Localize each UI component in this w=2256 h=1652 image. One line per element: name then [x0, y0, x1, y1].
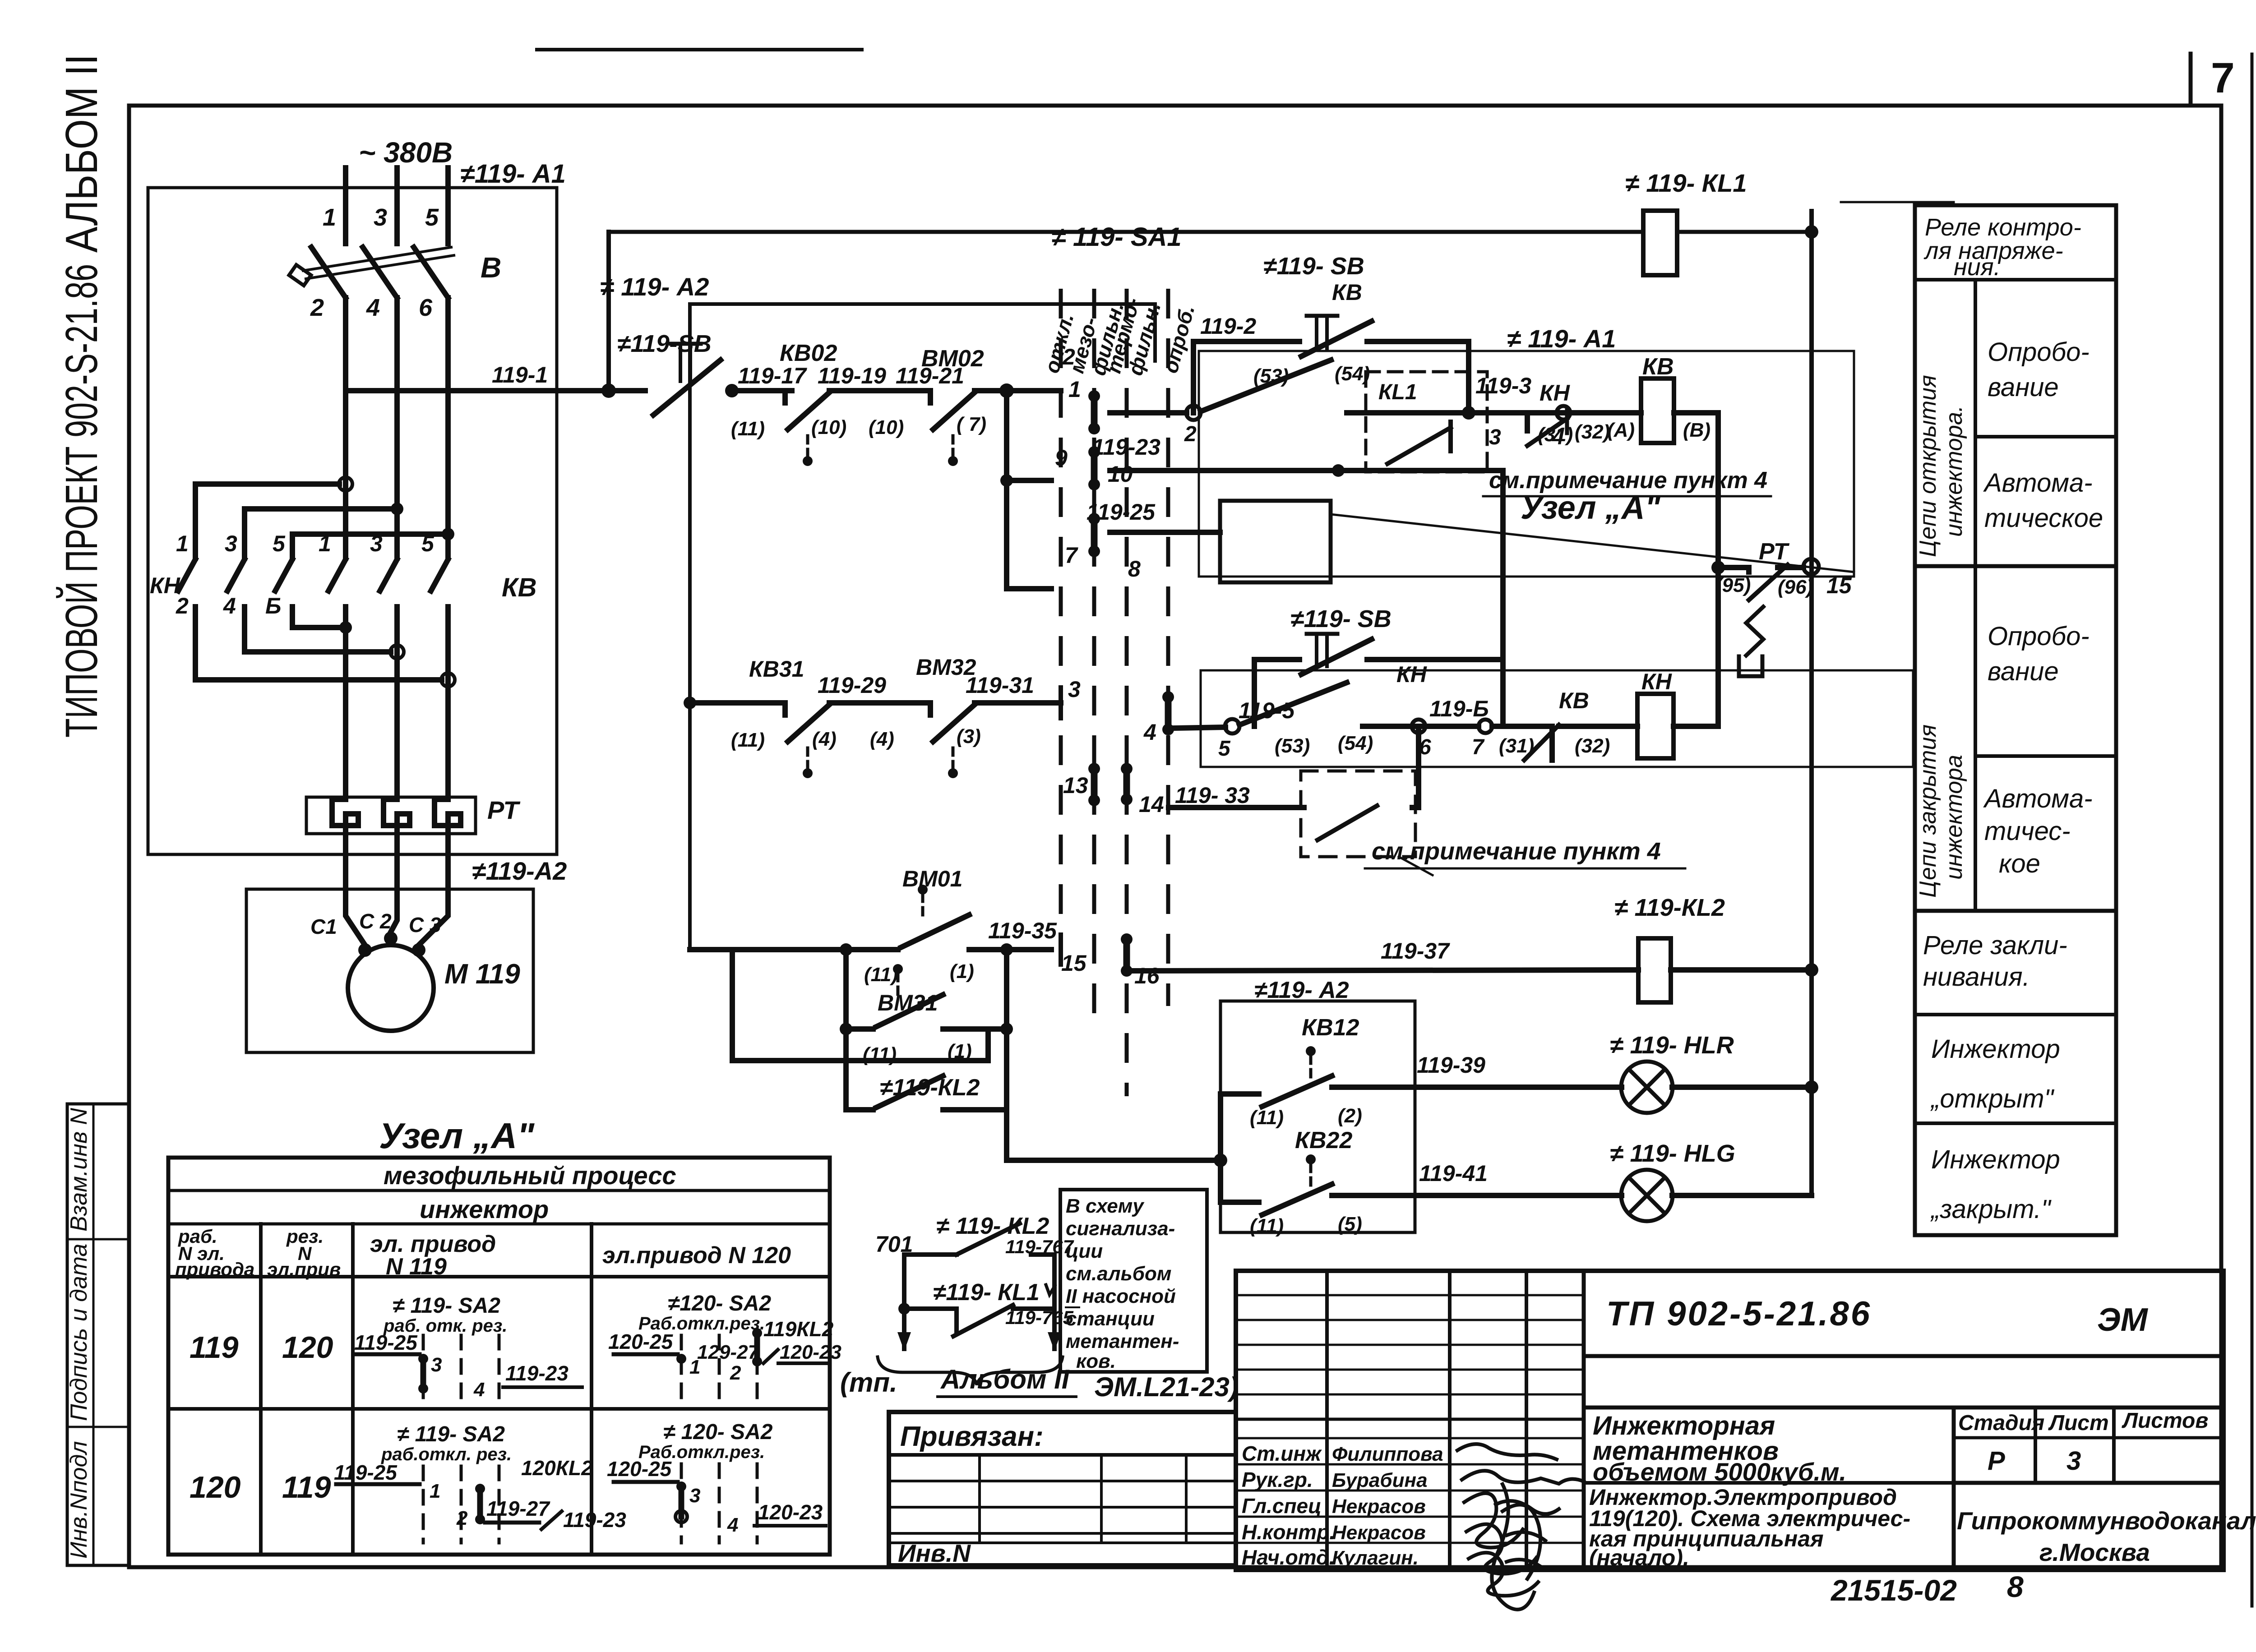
svg-text:Рук.гр.: Рук.гр. — [1242, 1468, 1313, 1491]
svg-text:(В): (В) — [1683, 419, 1710, 441]
svg-text:Инжектор: Инжектор — [1931, 1034, 2060, 1064]
cell: привод 119 / row 119 — [354, 1294, 582, 1401]
contact VM31 — [840, 964, 1013, 1035]
svg-text:8: 8 — [2007, 1570, 2024, 1603]
wire 119-41 with lamp HLG — [1332, 1161, 1812, 1195]
svg-text:119-767: 119-767 — [1005, 1236, 1074, 1257]
svg-text:120-23: 120-23 — [780, 1341, 841, 1363]
svg-text:≠ 119- SА1: ≠ 119- SА1 — [1051, 222, 1182, 252]
switch contact bridges — [1088, 390, 1174, 977]
svg-text:5: 5 — [425, 204, 439, 231]
title block — [1236, 1271, 2256, 1610]
svg-text:эл.привод N 120: эл.привод N 120 — [602, 1242, 791, 1269]
svg-text:(5): (5) — [1338, 1213, 1362, 1235]
svg-text:КВ: КВ — [1332, 280, 1362, 305]
svg-text:КВ22: КВ22 — [1295, 1127, 1352, 1154]
svg-text:120-25: 120-25 — [607, 1457, 672, 1481]
wire 119-25 to node A block — [1086, 499, 1331, 582]
svg-text:ЭМ: ЭМ — [2097, 1302, 2149, 1338]
svg-text:(11): (11) — [1250, 1107, 1284, 1129]
svg-text:(4): (4) — [870, 728, 894, 750]
svg-text:119-19: 119-19 — [818, 363, 886, 388]
svg-text:≠119-А2: ≠119-А2 — [472, 857, 567, 885]
svg-text:15: 15 — [1826, 573, 1852, 598]
svg-text:≠120- SА2: ≠120- SА2 — [668, 1292, 771, 1315]
svg-text:7: 7 — [1065, 543, 1078, 568]
svg-text:АЛЬБОМ II: АЛЬБОМ II — [56, 54, 107, 253]
svg-text:3: 3 — [2066, 1446, 2081, 1476]
svg-text:(32): (32) — [1575, 421, 1610, 443]
svg-text:С 2: С 2 — [359, 909, 392, 933]
svg-text:3: 3 — [689, 1485, 700, 1507]
svg-text:21515-02: 21515-02 — [1830, 1574, 1957, 1607]
svg-text:Реле закли-: Реле закли- — [1923, 931, 2067, 960]
svg-text:(11): (11) — [1250, 1215, 1284, 1237]
svg-text:120: 120 — [282, 1330, 333, 1365]
svg-text:Некрасов: Некрасов — [1332, 1495, 1426, 1518]
svg-text:вание: вание — [1988, 373, 2059, 402]
wire 119-5 row with KN contact — [1175, 683, 1637, 760]
svg-text:1: 1 — [430, 1480, 440, 1502]
svg-text:≠119- А1: ≠119- А1 — [460, 159, 566, 189]
svg-text:120: 120 — [190, 1470, 241, 1504]
svg-text:≠119-SВ: ≠119-SВ — [617, 330, 712, 357]
svg-text:6: 6 — [419, 294, 433, 321]
svg-text:120-25: 120-25 — [608, 1330, 674, 1353]
svg-text:120-23: 120-23 — [758, 1500, 823, 1524]
svg-text:≠ 119- КL1: ≠ 119- КL1 — [1625, 169, 1747, 197]
svg-text:Подпись и дата: Подпись и дата — [66, 1244, 92, 1421]
lamp #119-HLG — [1610, 1140, 1735, 1221]
svg-text:инжектор: инжектор — [420, 1195, 549, 1223]
svg-text:ния.: ния. — [1954, 254, 2001, 281]
svg-text:Взам.инв N: Взам.инв N — [66, 1108, 92, 1232]
svg-text:ции: ции — [1066, 1240, 1103, 1262]
svg-text:КВ31: КВ31 — [749, 656, 804, 682]
svg-text:≠ 119- SА2: ≠ 119- SА2 — [393, 1294, 500, 1318]
svg-text:≠ 119- А1: ≠ 119- А1 — [1507, 324, 1616, 353]
svg-text:119-27: 119-27 — [486, 1497, 550, 1520]
phase line L1 — [343, 168, 348, 244]
svg-text:„закрыт.": „закрыт." — [1930, 1195, 2052, 1224]
svg-text:Нач.отд.: Нач.отд. — [1242, 1546, 1335, 1569]
svg-text:(2): (2) — [1338, 1105, 1362, 1127]
svg-text:сигнализа-: сигнализа- — [1066, 1218, 1175, 1240]
node riser to top rail — [601, 383, 616, 398]
dashed column 1 (откл.) — [1059, 289, 1063, 974]
coil KV (opening) — [1575, 354, 1710, 443]
svg-text:Инв.Nподл: Инв.Nподл — [66, 1441, 92, 1559]
svg-text:мезофильный процесс: мезофильный процесс — [384, 1161, 676, 1190]
svg-text:129-27: 129-27 — [697, 1341, 760, 1363]
svg-text:(31): (31) — [1499, 735, 1534, 757]
wire 119-35 with contact VM01 — [690, 885, 1061, 964]
cell: привод 120 / row 119 — [608, 1292, 841, 1401]
svg-text:Кулагин.: Кулагин. — [1332, 1547, 1419, 1569]
svg-text:119-1: 119-1 — [492, 362, 548, 388]
svg-text:тичес-: тичес- — [1984, 817, 2071, 846]
svg-text:1: 1 — [1068, 377, 1081, 402]
svg-text:г.Москва: г.Москва — [2039, 1538, 2150, 1566]
svg-text:инжектора.: инжектора. — [1941, 406, 1967, 537]
svg-text:КВ: КВ — [1559, 688, 1589, 713]
svg-text:2: 2 — [310, 294, 324, 321]
svg-text:≠ 119- А2: ≠ 119- А2 — [600, 272, 709, 301]
signatures scribbles — [1457, 1444, 1584, 1610]
coil KN (closing) — [1637, 694, 1674, 758]
svg-text:Р: Р — [1988, 1446, 2005, 1476]
right legend table — [1915, 205, 2116, 1235]
svg-text:3: 3 — [1489, 425, 1501, 449]
svg-text:2: 2 — [456, 1507, 468, 1529]
svg-text:119: 119 — [190, 1330, 239, 1365]
svg-text:метантен-: метантен- — [1066, 1330, 1179, 1352]
contactor KV poles — [328, 559, 448, 799]
left stamp column (Инв.N подл / Подпись и дата / Взам.инв N) — [66, 1104, 129, 1565]
svg-text:2: 2 — [1184, 422, 1197, 446]
svg-text:≠119-КL2: ≠119-КL2 — [880, 1075, 980, 1101]
phase verticals above KV contacts — [343, 298, 348, 558]
svg-text:8: 8 — [1128, 556, 1141, 581]
svg-text:10: 10 — [1108, 461, 1133, 487]
wire 119-39 with lamp HLR — [1332, 1052, 1818, 1094]
svg-text:Автома-: Автома- — [1983, 468, 2093, 498]
svg-text:эл.прив: эл.прив — [267, 1259, 341, 1280]
svg-text:(3): (3) — [957, 725, 981, 748]
svg-text:5: 5 — [421, 531, 435, 556]
svg-text:КL1: КL1 — [1378, 380, 1417, 404]
svg-text:Инжектор: Инжектор — [1931, 1145, 2060, 1174]
svg-text:1: 1 — [319, 531, 331, 556]
phase line L2 — [394, 168, 400, 244]
svg-text:119: 119 — [282, 1470, 331, 1504]
alarm note box (В схему сигнализации...) — [1060, 1190, 1207, 1372]
breaker B poles — [289, 247, 454, 298]
svg-text:(95): (95) — [1715, 574, 1751, 596]
dashed column 4 (опроб.) — [1166, 289, 1170, 1006]
svg-text:≠ 119-КL2: ≠ 119-КL2 — [1614, 894, 1725, 921]
svg-text:119-35: 119-35 — [988, 918, 1057, 943]
svg-text:≠ 119- НLR: ≠ 119- НLR — [1610, 1032, 1734, 1059]
svg-text:119- 33: 119- 33 — [1175, 783, 1250, 808]
svg-text:(10): (10) — [869, 416, 904, 438]
svg-text:119-17: 119-17 — [738, 363, 807, 388]
feed wire to lamp box — [1007, 1110, 1220, 1160]
top rail to KL1 — [609, 230, 1643, 234]
note 2 (см.примечание пункт 4) — [1365, 838, 1685, 875]
svg-text:119-5: 119-5 — [1239, 698, 1295, 723]
svg-text:4: 4 — [366, 294, 380, 321]
svg-text:7: 7 — [1472, 735, 1485, 759]
svg-text:≠ 119- НLG: ≠ 119- НLG — [1610, 1140, 1735, 1167]
svg-text:14: 14 — [1139, 792, 1164, 817]
thin enclosure #119-A1 — [1199, 324, 1854, 577]
pushbutton SB bypass (opening) — [1193, 253, 1469, 413]
Привязан box — [889, 1412, 1236, 1567]
enclosure box #119-A1 — [148, 159, 566, 854]
svg-text:„открыт": „открыт" — [1930, 1084, 2055, 1113]
top-left scan marks — [537, 50, 1954, 202]
svg-text:Лист: Лист — [2048, 1411, 2109, 1435]
rotated column labels — [1040, 295, 1199, 378]
svg-text:(10): (10) — [811, 416, 846, 438]
svg-text:II насосной: II насосной — [1066, 1285, 1176, 1307]
svg-text:(53): (53) — [1275, 735, 1310, 757]
svg-text:(96): (96) — [1778, 576, 1813, 598]
svg-text:(11): (11) — [731, 418, 765, 440]
svg-text:КН: КН — [1539, 380, 1570, 406]
svg-text:Листов: Листов — [2122, 1409, 2208, 1433]
svg-text:Узел „А": Узел „А" — [379, 1116, 535, 1156]
wire 119-33 with aux KL contact (dashed) — [1169, 726, 1419, 857]
upper crossover wiring to KN — [195, 477, 454, 558]
svg-text:119-31: 119-31 — [966, 673, 1034, 698]
svg-text:≠119- SВ: ≠119- SВ — [1290, 605, 1392, 632]
svg-text:ВМ01: ВМ01 — [902, 866, 962, 891]
svg-text:2: 2 — [730, 1362, 741, 1384]
svg-text:5: 5 — [273, 531, 286, 556]
svg-text:2: 2 — [176, 593, 189, 618]
wire row KV31 / VM32 — [684, 688, 1061, 778]
svg-text:119-25: 119-25 — [354, 1331, 418, 1354]
svg-text:16: 16 — [1134, 963, 1160, 988]
relay coil KL1 — [1625, 169, 1747, 275]
motor enclosure box — [246, 889, 533, 1052]
svg-text:Опробо-: Опробо- — [1988, 337, 2090, 367]
svg-text:Альбом II: Альбом II — [940, 1364, 1070, 1394]
relay coil KL2 — [1614, 894, 1725, 1002]
wire 119-23 — [1092, 434, 1503, 660]
phase line L3 — [445, 168, 451, 244]
svg-text:4: 4 — [727, 1514, 738, 1536]
svg-text:119-29: 119-29 — [818, 673, 886, 698]
breaker terminal numbers — [310, 204, 501, 321]
terminal numbers — [1055, 344, 1164, 988]
svg-text:3: 3 — [431, 1354, 442, 1376]
svg-text:Цепи открытия: Цепи открытия — [1915, 375, 1941, 557]
cell: привод 120 / row 120 — [607, 1420, 826, 1543]
thin enclosure (closing) — [1201, 670, 1913, 767]
contact KV02 — [731, 340, 930, 466]
svg-text:(начало).: (начало). — [1589, 1545, 1689, 1570]
svg-text:Гл.спец: Гл.спец — [1242, 1494, 1322, 1518]
svg-text:119-25: 119-25 — [334, 1461, 398, 1484]
svg-text:13: 13 — [1063, 773, 1088, 798]
contact #119-KL1 (to alarm scheme) — [898, 1279, 1074, 1336]
left margin rotated title: ТИПОВОЙ ПРОЕКТ 902-5-21.86 АЛЬБОМ II — [56, 54, 107, 738]
svg-text:тическое: тическое — [1984, 503, 2103, 533]
contact VM02 — [869, 346, 1061, 466]
wire 119-37 — [1133, 938, 1638, 971]
svg-text:119-23: 119-23 — [563, 1508, 626, 1532]
svg-text:≠119- А2: ≠119- А2 — [1254, 977, 1349, 1003]
svg-text:РТ: РТ — [487, 796, 521, 824]
contact #119-KL2 (to alarm scheme) — [875, 1213, 1074, 1349]
svg-text:Цепи закрытия: Цепи закрытия — [1915, 724, 1941, 898]
svg-text:15: 15 — [1061, 951, 1087, 976]
lower crossover wiring — [195, 621, 455, 687]
svg-text:(4): (4) — [812, 728, 837, 750]
svg-text:119-2: 119-2 — [1200, 314, 1256, 339]
svg-text:(11): (11) — [864, 964, 898, 986]
svg-text:4: 4 — [473, 1379, 485, 1401]
dashed column 2 (мезофильн.) — [1092, 289, 1096, 1020]
svg-text:Узел „А": Узел „А" — [1521, 490, 1661, 526]
svg-text:раб.откл. рез.: раб.откл. рез. — [381, 1444, 512, 1464]
svg-text:3: 3 — [374, 204, 387, 231]
svg-text:КВ12: КВ12 — [1302, 1015, 1359, 1041]
curly brace — [878, 1357, 1063, 1385]
svg-text:см.альбом: см.альбом — [1066, 1263, 1171, 1285]
svg-text:Опробо-: Опробо- — [1988, 622, 2090, 651]
right vertical bus — [1809, 211, 1814, 1195]
svg-text:кое: кое — [1999, 849, 2040, 878]
svg-text:С 3: С 3 — [409, 913, 441, 937]
svg-text:КВ02: КВ02 — [780, 340, 837, 366]
wire from KN coil up to RT junction — [1674, 569, 1718, 726]
svg-text:4: 4 — [1143, 720, 1156, 745]
svg-text:(53): (53) — [1253, 365, 1289, 387]
svg-text:Гипрокоммунводоканал: Гипрокоммунводоканал — [1957, 1507, 2256, 1535]
svg-text:КВ: КВ — [1642, 354, 1674, 380]
svg-text:≠119- КL1: ≠119- КL1 — [933, 1279, 1040, 1306]
svg-text:С1: С1 — [310, 915, 337, 938]
svg-text:~ 380В: ~ 380В — [359, 136, 453, 169]
wire from coil to RT junction — [1674, 413, 1718, 568]
svg-text:119-23: 119-23 — [505, 1361, 569, 1385]
svg-text:4: 4 — [223, 593, 236, 618]
node A reference line + label — [1331, 490, 1854, 572]
svg-text:см.примечание пункт 4: см.примечание пункт 4 — [1372, 838, 1661, 865]
cell: привод 119 / row 120 — [334, 1422, 626, 1543]
svg-text:119-3: 119-3 — [1475, 373, 1531, 398]
svg-text:Привязан:: Привязан: — [900, 1421, 1044, 1452]
svg-text:2: 2 — [1062, 344, 1075, 369]
svg-text:ЭМ.L21-23): ЭМ.L21-23) — [1094, 1372, 1239, 1402]
bypass contact #119-KL2 — [846, 950, 1007, 1110]
svg-text:ТП 902-5-21.86: ТП 902-5-21.86 — [1606, 1295, 1872, 1333]
svg-text:ТИПОВОЙ ПРОЕКТ 902-S-21.86: ТИПОВОЙ ПРОЕКТ 902-S-21.86 — [56, 264, 107, 738]
svg-text:Инв.N: Инв.N — [898, 1539, 971, 1567]
svg-text:N 119: N 119 — [386, 1254, 447, 1280]
thermal contact RT with terminal 15 — [1711, 539, 1852, 676]
svg-text:В: В — [481, 251, 501, 284]
svg-text:3: 3 — [370, 531, 383, 556]
svg-text:120КL2: 120КL2 — [521, 1456, 593, 1480]
contactor KN poles — [178, 559, 292, 680]
svg-text:(32): (32) — [1575, 735, 1610, 757]
svg-text:1: 1 — [176, 531, 189, 556]
pushbutton SB bypass (closing) — [1254, 605, 1503, 726]
contact KV12 — [1220, 1015, 1362, 1129]
return wire under VM31 — [732, 950, 988, 1061]
svg-text:КВ: КВ — [502, 573, 537, 602]
svg-text:119-25: 119-25 — [1086, 499, 1156, 525]
svg-text:1: 1 — [323, 204, 336, 231]
svg-text:119-37: 119-37 — [1381, 938, 1450, 964]
note line (см.примечание пункт 4) — [1483, 467, 1771, 496]
caption (тп. Альбом II ЭМ.L21-23) — [840, 1364, 1239, 1402]
svg-text:119-Б: 119-Б — [1429, 696, 1489, 721]
svg-text:ВМ31: ВМ31 — [878, 990, 938, 1015]
wire 119-2 row with KV contact — [1110, 360, 1641, 446]
arrows down — [897, 1332, 911, 1351]
svg-text:КН: КН — [1641, 669, 1672, 694]
svg-text:119-41: 119-41 — [1419, 1161, 1488, 1186]
svg-text:(А): (А) — [1607, 419, 1635, 441]
svg-text:≠ 119- SА2: ≠ 119- SА2 — [397, 1422, 505, 1446]
svg-text:ков.: ков. — [1076, 1350, 1116, 1372]
svg-text:(тп.: (тп. — [840, 1367, 897, 1398]
svg-text:(1): (1) — [950, 960, 974, 983]
svg-text:( 7): ( 7) — [957, 413, 986, 435]
svg-text:119-21: 119-21 — [896, 363, 964, 388]
svg-text:(31): (31) — [1538, 424, 1573, 446]
svg-text:119-23: 119-23 — [1092, 434, 1160, 460]
svg-text:Некрасов: Некрасов — [1332, 1522, 1426, 1544]
svg-text:М 119: М 119 — [444, 959, 520, 990]
svg-text:инжектора: инжектора — [1941, 755, 1967, 880]
svg-text:РТ: РТ — [1759, 539, 1790, 565]
svg-text:объемом 5000куб.м.: объемом 5000куб.м. — [1593, 1458, 1846, 1486]
svg-text:Бурабина: Бурабина — [1332, 1469, 1428, 1491]
thermal relay RT — [306, 796, 521, 880]
svg-text:КН: КН — [1396, 662, 1427, 687]
svg-text:Филиппова: Филиппова — [1332, 1443, 1443, 1465]
svg-text:Автома-: Автома- — [1983, 784, 2093, 813]
svg-text:3: 3 — [1068, 677, 1081, 702]
branch to terminals 9 and 7 — [1000, 391, 1051, 589]
motor M119 — [310, 880, 520, 1031]
svg-text:(54): (54) — [1338, 732, 1373, 754]
svg-text:Реле контро-: Реле контро- — [1925, 214, 2081, 241]
enclosure #119-A2 (lamps box) — [1220, 977, 1415, 1232]
enclosure #119-A2 outline — [600, 272, 1155, 950]
svg-text:нивания.: нивания. — [1923, 962, 2030, 992]
contact KV22 — [1214, 1094, 1362, 1237]
svg-text:3: 3 — [225, 531, 237, 556]
svg-text:(11): (11) — [731, 729, 765, 751]
svg-text:Б: Б — [265, 593, 281, 618]
svg-text:119-765: 119-765 — [1005, 1307, 1074, 1328]
svg-text:вание: вание — [1988, 657, 2059, 686]
aux contact KL1 (dashed box) — [1366, 372, 1487, 472]
svg-text:привода: привода — [175, 1259, 254, 1280]
svg-text:7: 7 — [2211, 54, 2235, 102]
svg-text:5: 5 — [1218, 737, 1231, 761]
svg-text:119-39: 119-39 — [1417, 1052, 1485, 1078]
sheet number tab "7" — [2191, 54, 2235, 106]
svg-text:≠119- SВ: ≠119- SВ — [1263, 253, 1364, 280]
pushbutton SB on bus — [617, 330, 792, 415]
svg-text:В схему: В схему — [1066, 1195, 1145, 1217]
svg-text:Стадия: Стадия — [1958, 1411, 2044, 1435]
svg-text:Ст.инж: Ст.инж — [1242, 1442, 1322, 1465]
wire 119-1 — [346, 388, 645, 393]
svg-text:Н.контр.: Н.контр. — [1242, 1520, 1335, 1544]
dashed column 3 (термофильн.) — [1125, 289, 1129, 1096]
svg-text:≠ 120- SА2: ≠ 120- SА2 — [663, 1420, 773, 1444]
svg-text:9: 9 — [1055, 445, 1068, 471]
svg-text:119КL2: 119КL2 — [763, 1317, 834, 1341]
svg-text:станции: станции — [1066, 1308, 1155, 1330]
lamp #119-HLR — [1610, 1032, 1734, 1113]
